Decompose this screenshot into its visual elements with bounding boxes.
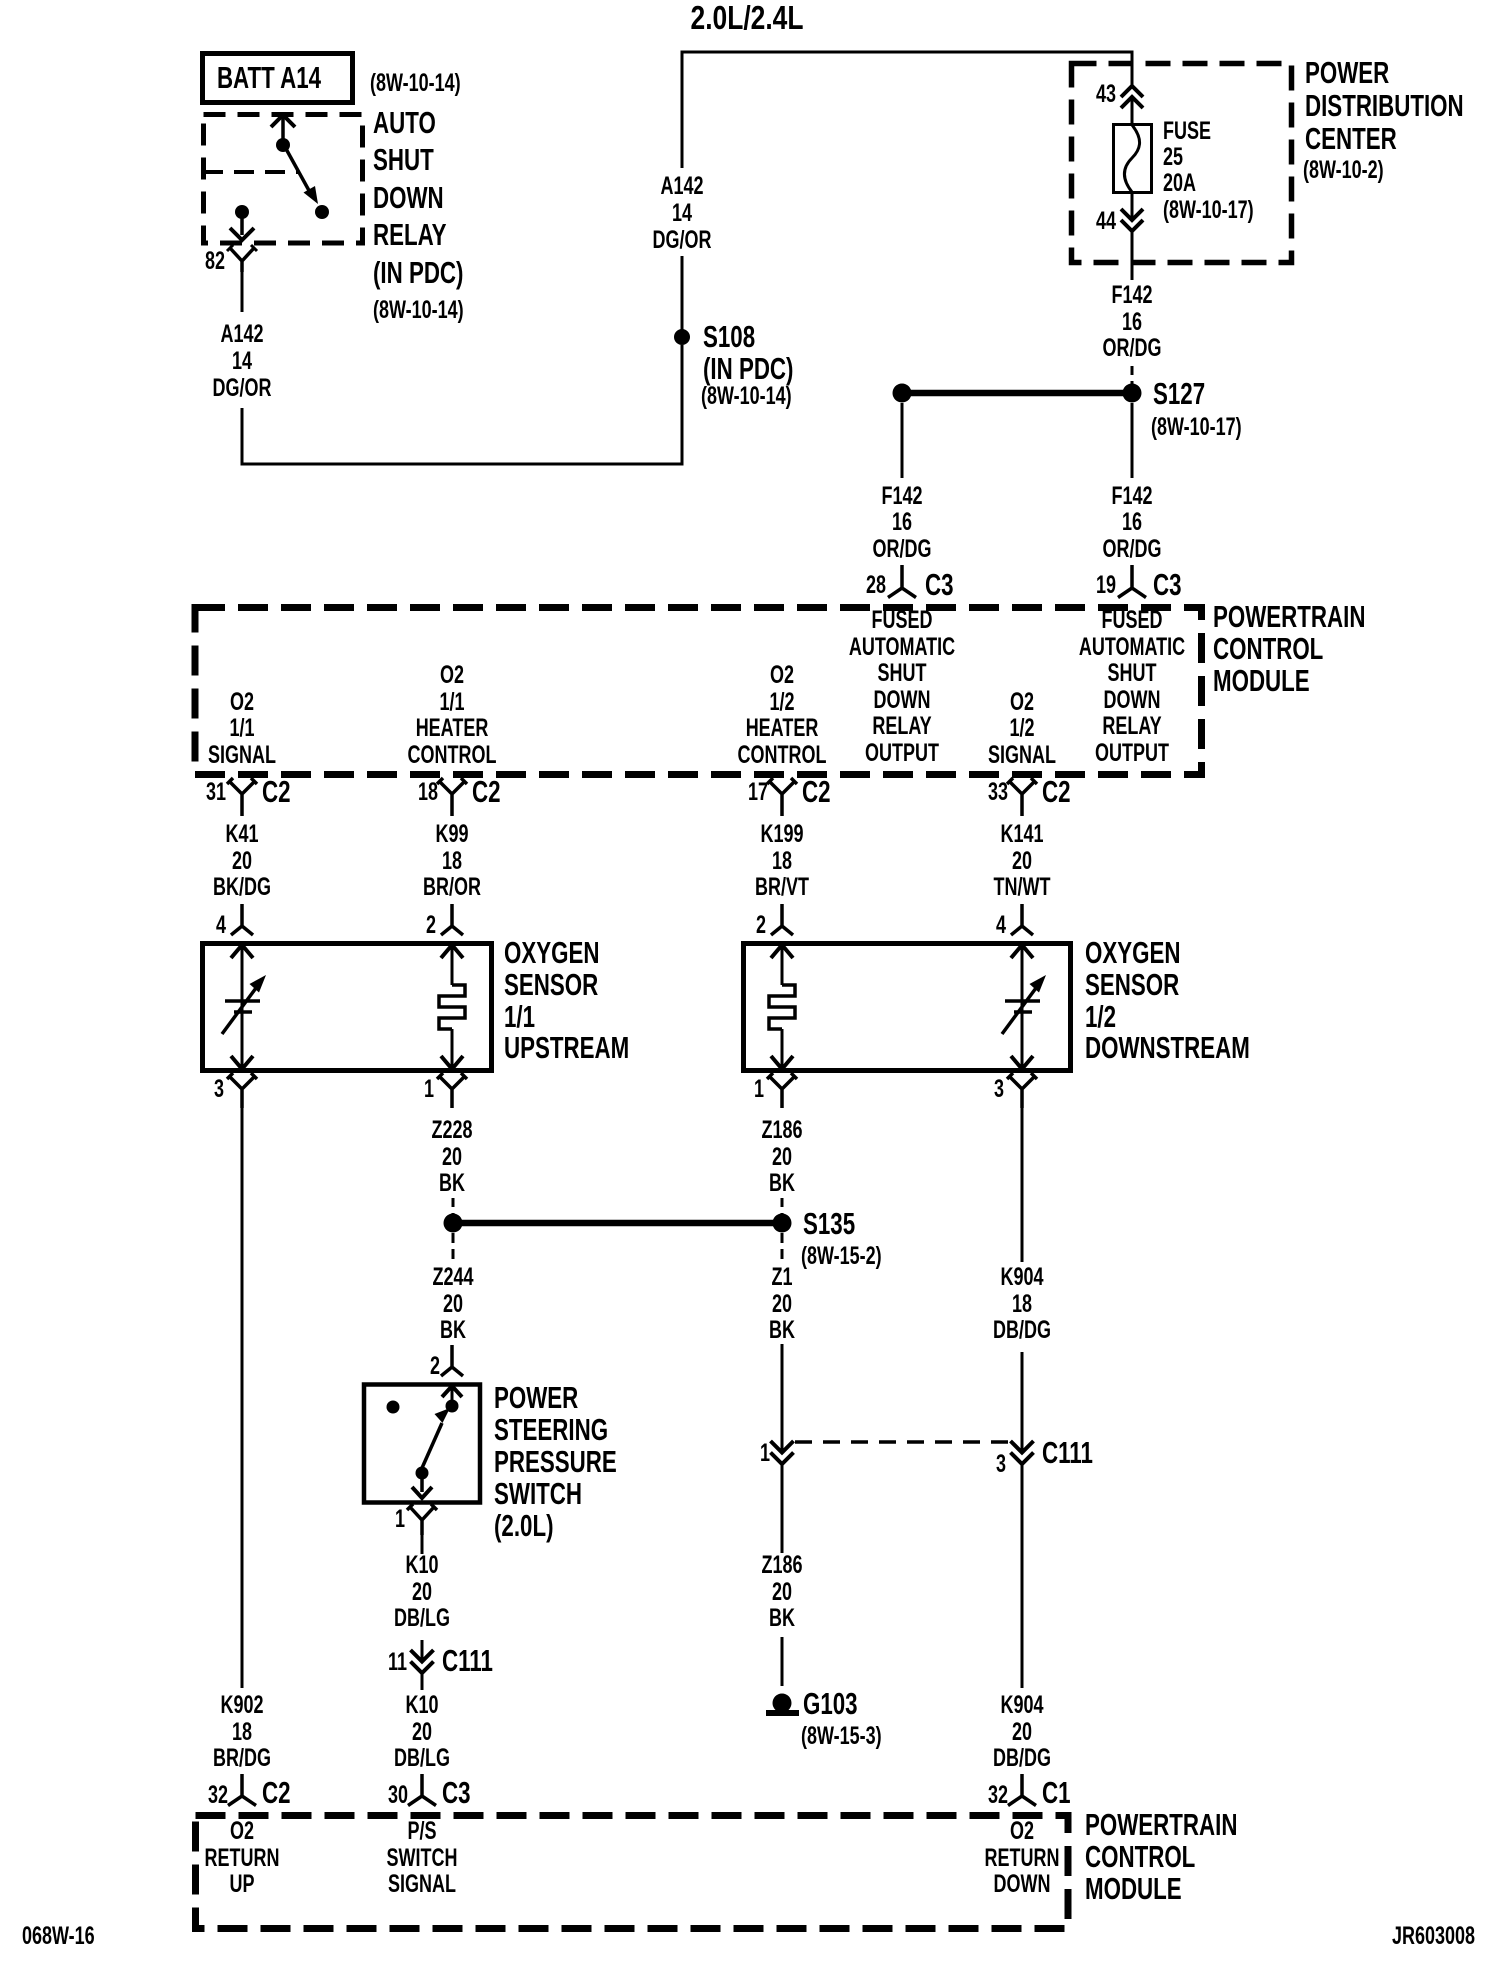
svg-text:BATT A14: BATT A14 bbox=[217, 60, 321, 94]
svg-text:POWER: POWER bbox=[1305, 55, 1389, 89]
sensor 1/1 signal element wire bbox=[241, 945, 244, 1069]
svg-text:CONTROL: CONTROL bbox=[738, 740, 827, 769]
connector 1 C111 double chevron bbox=[771, 1441, 794, 1464]
pin 30 connector C3 into PCM bbox=[408, 1774, 436, 1806]
svg-text:3: 3 bbox=[994, 1074, 1004, 1103]
svg-text:BR/DG: BR/DG bbox=[213, 1743, 271, 1772]
PCM label POWERTRAIN CONTROL MODULE (bottom) bbox=[1085, 1807, 1237, 1905]
svg-text:POWERTRAIN: POWERTRAIN bbox=[1085, 1807, 1237, 1841]
pin 82 connector Y bbox=[230, 248, 254, 272]
wire label K904 20 DB/DG bbox=[993, 1690, 1051, 1772]
sensor 1/1 signal element arrow-in top bbox=[231, 945, 253, 958]
svg-text:C111: C111 bbox=[442, 1643, 493, 1677]
svg-text:1: 1 bbox=[754, 1074, 764, 1103]
svg-text:C3: C3 bbox=[442, 1775, 471, 1809]
svg-text:1/2: 1/2 bbox=[769, 687, 794, 716]
svg-text:14: 14 bbox=[232, 346, 252, 375]
PCM powertrain control module dashed box (bottom) bbox=[196, 1816, 1069, 1929]
sensor 1/1 variable element diagonal arrow bbox=[222, 988, 256, 1034]
svg-text:FUSE: FUSE bbox=[1163, 116, 1211, 145]
svg-text:RETURN: RETURN bbox=[205, 1843, 280, 1872]
svg-text:AUTO: AUTO bbox=[373, 105, 436, 139]
svg-text:SENSOR: SENSOR bbox=[1085, 967, 1179, 1001]
svg-text:43: 43 bbox=[1096, 79, 1116, 108]
wire label Z228 20 BK bbox=[431, 1115, 472, 1197]
svg-text:DB/LG: DB/LG bbox=[394, 1743, 450, 1772]
svg-text:S127: S127 bbox=[1153, 376, 1205, 410]
svg-text:UPSTREAM: UPSTREAM bbox=[504, 1030, 629, 1064]
svg-text:G103: G103 bbox=[803, 1686, 858, 1720]
svg-text:(8W-10-2): (8W-10-2) bbox=[1303, 155, 1384, 184]
svg-text:20: 20 bbox=[412, 1577, 432, 1606]
oxygen sensor 1/2 downstream box bbox=[744, 944, 1071, 1071]
svg-text:17: 17 bbox=[748, 777, 768, 806]
switch pin arrow-out bottom bbox=[420, 1475, 424, 1492]
sensor 1/1 label OXYGEN SENSOR 1/1 UPSTREAM bbox=[504, 935, 629, 1064]
svg-text:C2: C2 bbox=[802, 774, 831, 808]
svg-text:O2: O2 bbox=[440, 660, 464, 689]
svg-text:PRESSURE: PRESSURE bbox=[494, 1444, 617, 1478]
svg-text:BK: BK bbox=[769, 1315, 795, 1344]
sensor 1/1 heater wire top bbox=[451, 945, 454, 985]
sensor 1/2 heater element arrow-in top bbox=[771, 945, 793, 958]
pin 2 into sensor 1/1 bbox=[441, 904, 463, 935]
svg-text:31: 31 bbox=[206, 777, 226, 806]
pin 32 connector C1 into PCM bbox=[1008, 1774, 1036, 1806]
svg-text:O2: O2 bbox=[1010, 1816, 1034, 1845]
wire top run to PDC bbox=[682, 52, 1132, 168]
wire label K41 20 BK/DG bbox=[213, 819, 271, 901]
svg-text:068W-16: 068W-16 bbox=[22, 1921, 95, 1950]
pin 32 connector C2 into PCM bbox=[228, 1774, 256, 1806]
wire chevron to fuse bbox=[1131, 97, 1134, 124]
svg-text:K904: K904 bbox=[1000, 1690, 1043, 1719]
relay NO contact dot bbox=[315, 205, 329, 219]
pin 18 connector C2 bbox=[437, 778, 467, 816]
wire below S127 right bbox=[1131, 403, 1134, 478]
power distribution center dashed box bbox=[1072, 64, 1292, 263]
svg-text:TN/WT: TN/WT bbox=[994, 872, 1052, 901]
svg-text:HEATER: HEATER bbox=[746, 713, 819, 742]
node P/S SWITCH SIGNAL bbox=[387, 1816, 458, 1898]
svg-text:S108: S108 bbox=[703, 319, 755, 353]
svg-text:C2: C2 bbox=[1042, 774, 1071, 808]
svg-text:K10: K10 bbox=[405, 1690, 438, 1719]
wire Z1 to C111 bbox=[781, 1344, 784, 1452]
svg-text:OXYGEN: OXYGEN bbox=[1085, 935, 1180, 969]
svg-text:S135: S135 bbox=[803, 1206, 855, 1240]
svg-text:1: 1 bbox=[424, 1074, 434, 1103]
svg-text:DG/OR: DG/OR bbox=[653, 225, 712, 254]
svg-text:20: 20 bbox=[442, 1142, 462, 1171]
switch label POWER STEERING PRESSURE SWITCH (2.0L) bbox=[494, 1380, 617, 1542]
wire label Z186 20 BK (upper) bbox=[761, 1115, 802, 1197]
svg-text:20: 20 bbox=[443, 1289, 463, 1318]
svg-text:F142: F142 bbox=[1111, 280, 1152, 309]
svg-text:POWER: POWER bbox=[494, 1380, 578, 1414]
svg-text:O2: O2 bbox=[230, 687, 254, 716]
wire to G103 bbox=[781, 1637, 784, 1686]
svg-text:K10: K10 bbox=[405, 1550, 438, 1579]
dashed stub above S135 right bbox=[781, 1198, 784, 1215]
pin 43 double chevron bbox=[1121, 86, 1143, 108]
relay common contact dot bbox=[276, 138, 290, 152]
ground G103 bbox=[773, 1694, 792, 1713]
svg-text:DISTRIBUTION: DISTRIBUTION bbox=[1305, 88, 1464, 122]
dashed stub above S127 bbox=[1131, 366, 1134, 386]
pin 4 into sensor 1/1 bbox=[231, 904, 253, 935]
node O2 1/1 SIGNAL bbox=[208, 687, 276, 769]
svg-text:BK: BK bbox=[769, 1168, 795, 1197]
svg-text:16: 16 bbox=[1122, 307, 1142, 336]
svg-text:20: 20 bbox=[1012, 846, 1032, 875]
svg-text:Z1: Z1 bbox=[772, 1262, 793, 1291]
svg-text:44: 44 bbox=[1096, 206, 1116, 235]
node O2 1/1 HEATER CONTROL bbox=[408, 660, 497, 769]
sensor 1/2 label OXYGEN SENSOR 1/2 DOWNSTREAM bbox=[1085, 935, 1250, 1064]
svg-text:F142: F142 bbox=[881, 481, 922, 510]
svg-text:AUTOMATIC: AUTOMATIC bbox=[1079, 632, 1185, 661]
splice S127 bus bbox=[902, 390, 1132, 397]
svg-text:SIGNAL: SIGNAL bbox=[388, 1869, 456, 1898]
svg-text:FUSED: FUSED bbox=[1102, 605, 1163, 634]
svg-text:MODULE: MODULE bbox=[1085, 1871, 1182, 1905]
node FUSED AUTOMATIC SHUT DOWN RELAY OUTPUT (left) bbox=[849, 605, 955, 767]
svg-text:C111: C111 bbox=[1042, 1435, 1093, 1469]
svg-text:OR/DG: OR/DG bbox=[1103, 534, 1162, 563]
wire label K10 20 DB/LG (upper) bbox=[394, 1550, 450, 1632]
svg-text:MODULE: MODULE bbox=[1213, 663, 1310, 697]
svg-text:K904: K904 bbox=[1000, 1262, 1043, 1291]
wire K904 to C111 bbox=[1021, 1352, 1024, 1452]
sensor 1/1 signal element arrow-in bottom bbox=[231, 1056, 253, 1069]
sensor 1/1 heater element arrow-in top bbox=[441, 945, 463, 958]
relay output contact dot bbox=[235, 205, 249, 219]
svg-text:Z186: Z186 bbox=[761, 1550, 802, 1579]
svg-text:CONTROL: CONTROL bbox=[408, 740, 497, 769]
svg-text:DOWN: DOWN bbox=[373, 180, 444, 214]
svg-text:P/S: P/S bbox=[408, 1816, 437, 1845]
wire A142 lower segment to S108 bbox=[242, 345, 682, 464]
svg-text:OR/DG: OR/DG bbox=[1103, 333, 1162, 362]
sensor 1/1 heater element arrow-in bottom bbox=[441, 1056, 463, 1069]
fuse 25 20A bbox=[1114, 125, 1152, 193]
svg-text:C2: C2 bbox=[262, 774, 291, 808]
splice S108 dot bbox=[674, 329, 690, 345]
wire K10 to C111 bbox=[421, 1640, 424, 1661]
svg-text:RELAY: RELAY bbox=[872, 711, 932, 740]
svg-text:25: 25 bbox=[1163, 142, 1183, 171]
svg-text:18: 18 bbox=[442, 846, 462, 875]
svg-text:(8W-15-2): (8W-15-2) bbox=[801, 1241, 882, 1270]
wire A142 upper segment bbox=[241, 272, 244, 312]
wire label A142 14 DG/OR (middle) bbox=[653, 171, 712, 254]
wire below S127 left bbox=[901, 403, 904, 478]
svg-text:18: 18 bbox=[1012, 1289, 1032, 1318]
pin 2 into pressure switch bbox=[441, 1345, 463, 1376]
svg-text:A142: A142 bbox=[220, 319, 263, 348]
pin 33 connector C2 bbox=[1007, 778, 1037, 816]
sensor 1/2 heater wire top bbox=[781, 945, 784, 985]
svg-text:SHUT: SHUT bbox=[373, 142, 434, 176]
connector 11 C111 double chevron bbox=[411, 1650, 434, 1673]
svg-text:(8W-10-14): (8W-10-14) bbox=[373, 295, 464, 324]
wire label A142 14 DG/OR (left) bbox=[213, 319, 272, 402]
pin 3 out of sensor 1/2 bbox=[1007, 1073, 1037, 1108]
svg-text:RELAY: RELAY bbox=[1102, 711, 1162, 740]
svg-text:JR603008: JR603008 bbox=[1392, 1921, 1475, 1950]
svg-text:20: 20 bbox=[232, 846, 252, 875]
splice S108 labels bbox=[701, 319, 793, 409]
svg-text:Z228: Z228 bbox=[431, 1115, 472, 1144]
svg-text:1/2: 1/2 bbox=[1009, 713, 1034, 742]
svg-text:1/1: 1/1 bbox=[439, 687, 464, 716]
svg-text:F142: F142 bbox=[1111, 481, 1152, 510]
svg-text:20: 20 bbox=[772, 1577, 792, 1606]
dashed stub above S135 left bbox=[452, 1198, 455, 1215]
svg-text:CONTROL: CONTROL bbox=[1213, 631, 1323, 665]
svg-text:OXYGEN: OXYGEN bbox=[504, 935, 599, 969]
sensor 1/2 heater element arrow-in bottom bbox=[771, 1056, 793, 1069]
sensor 1/2 heater wire bottom bbox=[781, 1029, 784, 1069]
svg-text:2.0L/2.4L: 2.0L/2.4L bbox=[691, 0, 804, 36]
connector 3 C111 double chevron bbox=[1011, 1441, 1034, 1464]
splice S135 left dot bbox=[444, 1214, 463, 1233]
pin 17 connector C2 bbox=[767, 778, 797, 816]
svg-text:OUTPUT: OUTPUT bbox=[1095, 738, 1170, 767]
svg-text:(8W-10-14): (8W-10-14) bbox=[701, 381, 792, 410]
svg-text:1: 1 bbox=[760, 1438, 770, 1467]
svg-text:CONTROL: CONTROL bbox=[1085, 1839, 1195, 1873]
pin 1 out of sensor 1/2 bbox=[767, 1073, 797, 1108]
svg-text:DOWN: DOWN bbox=[1104, 685, 1161, 714]
svg-text:O2: O2 bbox=[770, 660, 794, 689]
relay switch arm with arrowhead bbox=[285, 147, 312, 196]
svg-text:A142: A142 bbox=[660, 171, 703, 200]
battery feed box BATT A14 bbox=[203, 54, 353, 103]
svg-text:RELAY: RELAY bbox=[373, 217, 447, 251]
svg-text:DOWNSTREAM: DOWNSTREAM bbox=[1085, 1030, 1250, 1064]
pin 31 connector C2 bbox=[227, 778, 257, 816]
svg-text:C3: C3 bbox=[925, 567, 954, 601]
svg-text:DG/OR: DG/OR bbox=[213, 373, 272, 402]
svg-text:2: 2 bbox=[430, 1351, 440, 1380]
svg-text:SHUT: SHUT bbox=[1108, 658, 1158, 687]
switch top contact wire bbox=[451, 1386, 454, 1401]
pin 4 into sensor 1/2 bbox=[1011, 904, 1033, 935]
svg-text:82: 82 bbox=[205, 246, 225, 275]
svg-text:SIGNAL: SIGNAL bbox=[988, 740, 1056, 769]
svg-text:K99: K99 bbox=[435, 819, 468, 848]
wire label K902 18 BR/DG bbox=[213, 1690, 271, 1772]
pin 19 connector C3 bbox=[1118, 565, 1146, 598]
svg-text:14: 14 bbox=[672, 198, 692, 227]
svg-text:POWERTRAIN: POWERTRAIN bbox=[1213, 599, 1365, 633]
splice S135 bus bbox=[453, 1220, 782, 1227]
wire label K904 18 DB/DG bbox=[993, 1262, 1051, 1344]
svg-text:C2: C2 bbox=[262, 1775, 291, 1809]
splice S127 right dot bbox=[1123, 384, 1142, 403]
sensor 1/2 signal element arrow-in bottom bbox=[1011, 1056, 1033, 1069]
svg-text:(2.0L): (2.0L) bbox=[494, 1508, 554, 1542]
wire from S108 up bbox=[681, 256, 684, 330]
dashed wire between C111 halves bbox=[795, 1440, 1008, 1444]
wire K904 lower bbox=[1021, 1464, 1024, 1688]
svg-text:O2: O2 bbox=[230, 1816, 254, 1845]
sensor 1/2 variable element bars bbox=[1005, 999, 1040, 1003]
svg-text:19: 19 bbox=[1096, 570, 1116, 599]
node O2 1/2 HEATER CONTROL bbox=[738, 660, 827, 769]
svg-text:DOWN: DOWN bbox=[994, 1869, 1051, 1898]
wire K10 below C111 bbox=[421, 1673, 424, 1690]
svg-text:1/1: 1/1 bbox=[504, 999, 535, 1033]
PCM powertrain control module dashed box (top) bbox=[195, 608, 1202, 775]
svg-text:O2: O2 bbox=[1010, 687, 1034, 716]
wire label F142 16 OR/DG (right col) bbox=[1103, 280, 1162, 362]
splice S127 left dot bbox=[893, 384, 912, 403]
svg-text:K902: K902 bbox=[220, 1690, 263, 1719]
wire Z186 below C111 bbox=[781, 1464, 784, 1553]
node FUSED AUTOMATIC SHUT DOWN RELAY OUTPUT (right) bbox=[1079, 605, 1185, 767]
node O2 RETURN UP bbox=[205, 1816, 280, 1898]
svg-text:BK/DG: BK/DG bbox=[213, 872, 271, 901]
relay coil pin arrow (top) bbox=[271, 115, 295, 127]
svg-text:2: 2 bbox=[756, 910, 766, 939]
svg-text:3: 3 bbox=[996, 1449, 1006, 1478]
wire fuse to pin 44 bbox=[1131, 192, 1134, 220]
svg-text:16: 16 bbox=[1122, 507, 1142, 536]
svg-text:RETURN: RETURN bbox=[985, 1843, 1060, 1872]
svg-text:16: 16 bbox=[892, 507, 912, 536]
svg-text:4: 4 bbox=[216, 910, 226, 939]
svg-text:SWITCH: SWITCH bbox=[494, 1476, 582, 1510]
svg-text:20: 20 bbox=[772, 1289, 792, 1318]
wire label F142 16 OR/DG (col D) bbox=[873, 481, 932, 563]
svg-text:(8W-10-17): (8W-10-17) bbox=[1151, 412, 1242, 441]
wire label F142 16 OR/DG (col F) bbox=[1103, 481, 1162, 563]
dashed stub below S135 right bbox=[781, 1233, 784, 1263]
svg-text:(8W-15-3): (8W-15-3) bbox=[801, 1721, 882, 1750]
svg-text:SENSOR: SENSOR bbox=[504, 967, 598, 1001]
switch pin arrow-in top bbox=[442, 1386, 462, 1397]
pin 3 out of sensor 1/1 bbox=[227, 1073, 257, 1108]
svg-text:C1: C1 bbox=[1042, 1775, 1071, 1809]
svg-text:Z244: Z244 bbox=[432, 1262, 473, 1291]
svg-text:18: 18 bbox=[772, 846, 792, 875]
svg-text:1/2: 1/2 bbox=[1085, 999, 1116, 1033]
svg-text:AUTOMATIC: AUTOMATIC bbox=[849, 632, 955, 661]
svg-text:DB/DG: DB/DG bbox=[993, 1315, 1051, 1344]
dashed stub below S135 left bbox=[452, 1233, 455, 1263]
svg-text:4: 4 bbox=[996, 910, 1006, 939]
svg-text:C2: C2 bbox=[472, 774, 501, 808]
switch arm with arrowhead bbox=[422, 1423, 442, 1468]
svg-text:33: 33 bbox=[988, 777, 1008, 806]
splice S127 labels bbox=[1151, 376, 1242, 440]
svg-text:18: 18 bbox=[232, 1717, 252, 1746]
svg-text:K199: K199 bbox=[760, 819, 803, 848]
svg-text:20A: 20A bbox=[1163, 168, 1196, 197]
svg-text:C3: C3 bbox=[1153, 567, 1182, 601]
sensor 1/1 heater wire bottom bbox=[451, 1029, 454, 1069]
svg-text:K41: K41 bbox=[225, 819, 258, 848]
svg-text:11: 11 bbox=[388, 1647, 407, 1676]
wire label Z1 20 BK bbox=[769, 1262, 795, 1344]
pin 2 into sensor 1/2 bbox=[771, 904, 793, 935]
power steering pressure switch box bbox=[364, 1385, 480, 1503]
svg-text:(8W-10-17): (8W-10-17) bbox=[1163, 195, 1254, 224]
sensor 1/2 signal element arrow-in top bbox=[1011, 945, 1033, 958]
node O2 1/2 SIGNAL bbox=[988, 687, 1056, 769]
svg-text:DB/LG: DB/LG bbox=[394, 1603, 450, 1632]
svg-text:1: 1 bbox=[395, 1504, 405, 1533]
svg-text:CENTER: CENTER bbox=[1305, 121, 1397, 155]
svg-text:SWITCH: SWITCH bbox=[387, 1843, 458, 1872]
svg-text:STEERING: STEERING bbox=[494, 1412, 608, 1446]
pin 44 double chevron bbox=[1121, 209, 1143, 231]
svg-text:20: 20 bbox=[412, 1717, 432, 1746]
svg-text:K141: K141 bbox=[1000, 819, 1043, 848]
sensor 1/1 variable element bars bbox=[225, 999, 260, 1003]
svg-text:32: 32 bbox=[988, 1780, 1008, 1809]
svg-text:BR/OR: BR/OR bbox=[423, 872, 481, 901]
svg-text:BK: BK bbox=[439, 1168, 465, 1197]
wire label Z186 20 BK (lower) bbox=[761, 1550, 802, 1632]
splice S135 labels bbox=[801, 1206, 882, 1269]
svg-text:HEATER: HEATER bbox=[416, 713, 489, 742]
PDC label POWER DISTRIBUTION CENTER bbox=[1303, 55, 1464, 183]
sensor 1/2 heater square-wave element bbox=[769, 985, 795, 1029]
svg-text:3: 3 bbox=[214, 1074, 224, 1103]
pin 1 out of pressure switch bbox=[407, 1504, 437, 1535]
relay label AUTO SHUT DOWN RELAY (IN PDC) bbox=[373, 105, 464, 323]
relay output pin arrow (bottom) bbox=[240, 214, 244, 235]
svg-text:(8W-10-14): (8W-10-14) bbox=[370, 68, 461, 97]
svg-text:SIGNAL: SIGNAL bbox=[208, 740, 276, 769]
wire label K141 20 TN/WT bbox=[994, 819, 1052, 901]
svg-text:1/1: 1/1 bbox=[229, 713, 254, 742]
svg-text:30: 30 bbox=[388, 1780, 408, 1809]
svg-text:Z186: Z186 bbox=[761, 1115, 802, 1144]
wire label K99 18 BR/OR bbox=[423, 819, 481, 901]
sensor 1/2 signal element wire bbox=[1021, 945, 1024, 1069]
svg-text:18: 18 bbox=[418, 777, 438, 806]
wire label K10 20 DB/LG (lower) bbox=[394, 1690, 450, 1772]
svg-text:UP: UP bbox=[230, 1869, 255, 1898]
pin 1 out of sensor 1/1 bbox=[437, 1073, 467, 1108]
svg-text:BK: BK bbox=[440, 1315, 466, 1344]
wire K902 long run bbox=[241, 1108, 244, 1688]
pin 28 connector C3 bbox=[888, 565, 916, 598]
svg-text:28: 28 bbox=[866, 570, 886, 599]
svg-text:OUTPUT: OUTPUT bbox=[865, 738, 940, 767]
svg-text:BK: BK bbox=[769, 1603, 795, 1632]
oxygen sensor 1/1 upstream box bbox=[203, 944, 492, 1071]
relay internal divider bbox=[203, 170, 298, 174]
PCM label POWERTRAIN CONTROL MODULE bbox=[1213, 599, 1365, 697]
svg-text:OR/DG: OR/DG bbox=[873, 534, 932, 563]
svg-text:32: 32 bbox=[208, 1780, 228, 1809]
switch pivot dot bbox=[416, 1467, 429, 1480]
wire below PDC bbox=[1131, 231, 1134, 280]
svg-text:2: 2 bbox=[426, 910, 436, 939]
wire label K199 18 BR/VT bbox=[755, 819, 810, 901]
svg-text:DOWN: DOWN bbox=[874, 685, 931, 714]
svg-text:20: 20 bbox=[1012, 1717, 1032, 1746]
svg-text:BR/VT: BR/VT bbox=[755, 872, 810, 901]
relay K1 auto shut down relay dashed box bbox=[204, 115, 363, 244]
svg-text:FUSED: FUSED bbox=[872, 605, 933, 634]
